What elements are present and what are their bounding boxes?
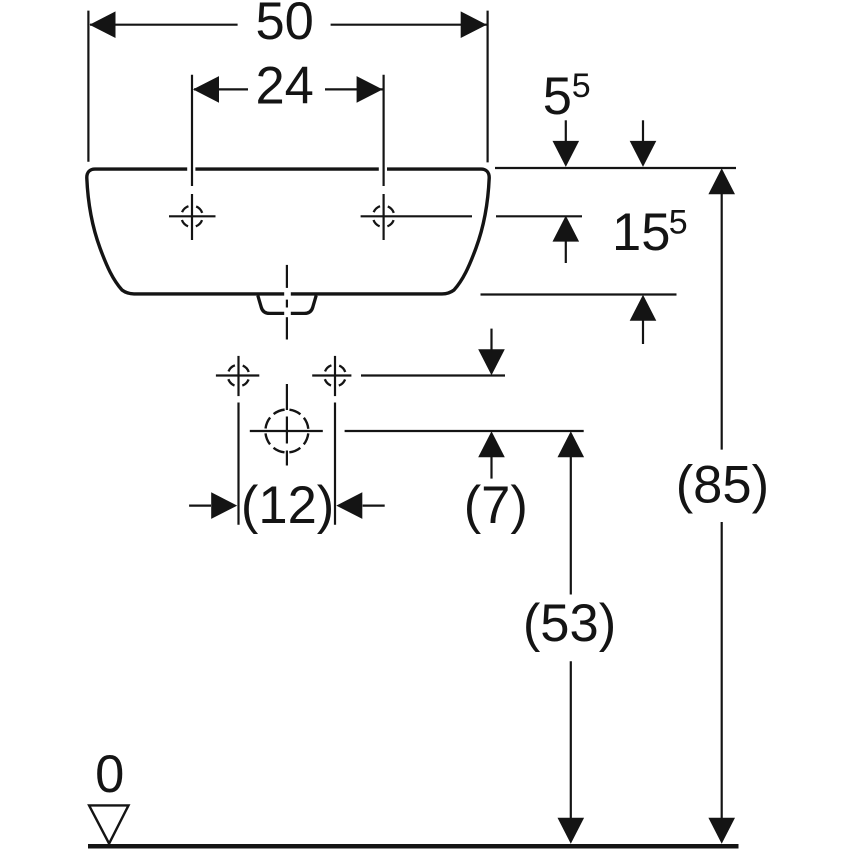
arrowheads [90, 11, 736, 843]
arrow 15.5 up [630, 295, 657, 321]
arrow (85) top up [708, 168, 735, 194]
basin bottom extension line [481, 293, 677, 295]
datum triangle (zero level) [89, 805, 128, 843]
halo gaps on basin lines at centre-line crossings [187, 164, 387, 319]
drain dashed circle [265, 410, 308, 453]
arrow (12) left pointing right [211, 492, 237, 519]
arrow 50 left [90, 11, 116, 38]
(53) dim line vertical [570, 455, 572, 595]
(85) dim line vertical [721, 193, 723, 450]
drain level extension line [345, 430, 584, 432]
fixing hole cross right vertical [334, 356, 336, 396]
arrow 5.5 down [553, 141, 580, 167]
fixing level extension line [361, 374, 505, 376]
(12) arrow stem right [363, 505, 385, 507]
tap hole left dashed circle [181, 206, 203, 228]
arrow 5.5 up [553, 216, 580, 242]
(7) up arrow stem [490, 456, 492, 479]
svg-text:(12): (12) [241, 476, 334, 535]
arrow 50 right [461, 11, 487, 38]
thin lines [88, 11, 736, 819]
centre line of drain (dash segments) [286, 265, 288, 466]
tap hole centre line right (vertical) [383, 75, 385, 186]
5.5 up arrow stem [565, 241, 567, 264]
(12) extension line right [334, 403, 336, 525]
svg-text:50: 50 [255, 0, 313, 51]
arrow 24 right [357, 76, 383, 103]
svg-text:(85): (85) [676, 455, 769, 514]
15.5 down arrow stem [642, 120, 644, 142]
dim line 24 [194, 88, 248, 90]
arrow (12) right pointing left [336, 492, 362, 519]
halo over extension where basin edge crosses [472, 209, 496, 223]
fixing hole right dashed circle [324, 365, 346, 387]
svg-text:5: 5 [669, 204, 688, 242]
fixing hole cross right horizontal [312, 374, 351, 376]
wire: tap-hole centre line right, extension to 5.5 dim [361, 215, 582, 217]
arrow (7) up [478, 431, 505, 457]
baseline (floor) [88, 844, 739, 849]
extension line right (50) [487, 11, 489, 163]
tap hole centre line left (vertical) [191, 75, 193, 186]
(7) down arrow stem [490, 329, 492, 351]
extension line left (50) [87, 11, 89, 162]
15.5 up arrow stem [642, 320, 644, 344]
svg-text:(7): (7) [464, 476, 528, 535]
arrow (53) top up [558, 431, 585, 457]
svg-text:5: 5 [543, 67, 572, 126]
(12) extension line left [237, 403, 239, 525]
arrow 24 left [193, 76, 219, 103]
svg-text:0: 0 [95, 745, 124, 804]
tap hole cross left (horizontal) [169, 215, 216, 217]
arrow (85) bottom down [708, 818, 735, 844]
dim line 50 [90, 24, 238, 26]
arrow 15.5 down [630, 141, 657, 167]
svg-text:24: 24 [255, 57, 313, 116]
arrow (53) bottom down [558, 818, 585, 844]
svg-text:15: 15 [612, 203, 670, 262]
tap hole right dashed circle [373, 206, 395, 228]
fixing hole left dashed circle [228, 365, 250, 387]
svg-text:(53): (53) [523, 594, 616, 653]
(12) arrow stem left [189, 505, 211, 507]
drain tab under basin [258, 295, 316, 313]
arrow (7) down [478, 349, 505, 375]
5.5 down arrow stem [565, 120, 567, 142]
basin outline [87, 169, 489, 294]
fixing hole cross left horizontal [216, 374, 259, 376]
svg-text:5: 5 [572, 67, 591, 105]
rim level extension line [495, 167, 736, 169]
fixing hole cross left vertical [237, 356, 239, 396]
drain cross horizontal [250, 430, 323, 432]
